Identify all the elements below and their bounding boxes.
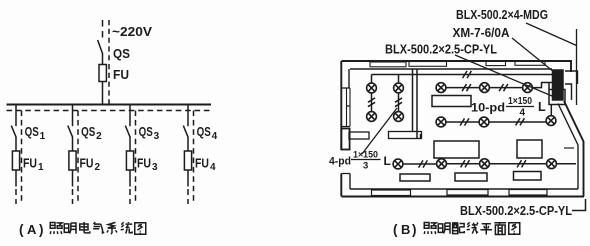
window W1 top wall — [370, 62, 406, 67]
lamp row2 no.1 — [436, 117, 446, 127]
wire incoming feed neutral (dashed) — [108, 20, 110, 104]
switch QS1 blade — [11, 126, 16, 138]
wire branch4 neutral (dashed) — [193, 111, 195, 205]
svg-text:QS: QS — [197, 124, 211, 139]
lamp row3 no.2 — [437, 159, 447, 169]
hatch row3 seg2 — [461, 160, 470, 167]
lamp room1 bottom-right — [394, 112, 404, 122]
wire row1 seg2 — [490, 87, 522, 89]
lamp row3 no.4 — [547, 159, 557, 169]
svg-text:B: B — [401, 222, 410, 237]
wire branch1 lower dashed stub — [15, 189, 17, 204]
wire branch3 neutral (dashed) — [135, 111, 137, 205]
wall top inner — [350, 68, 552, 70]
svg-text:A: A — [27, 222, 37, 237]
svg-text:QS: QS — [139, 124, 153, 139]
svg-text:10-pd: 10-pd — [471, 103, 505, 115]
wire room1 col1 vertical — [371, 93, 373, 111]
wire branch1 neutral (dashed) — [21, 111, 23, 205]
lamp row1 no.2 — [480, 83, 490, 93]
window W6 bottom wall — [447, 190, 488, 196]
fluorescent fixture box3 — [517, 140, 542, 158]
svg-text:4-pd: 4-pd — [329, 156, 351, 168]
lamp row3 no.3 — [480, 159, 490, 169]
leader line from 4-pd label into room — [362, 108, 397, 154]
wall partition interior (double line) — [413, 69, 421, 139]
caption (B) 照明配线平面图 — [393, 222, 520, 237]
wire room1 col2 vertical — [398, 93, 400, 111]
switch QS3 blade — [125, 126, 130, 138]
busbar neutral (dashed) — [7, 110, 212, 112]
wire row3 seg1 — [403, 163, 436, 165]
leader bracket of bottom cable label — [572, 199, 586, 211]
lamp row1 no.3 — [523, 83, 533, 93]
svg-text:1: 1 — [40, 131, 46, 142]
fluorescent fixture bar2 — [455, 173, 487, 181]
wire row2 seg1 — [446, 121, 478, 123]
wall left window ticks — [341, 88, 350, 174]
svg-text:2: 2 — [95, 162, 101, 173]
svg-text:QS: QS — [81, 124, 95, 139]
hatch row2 seg2 — [516, 118, 525, 125]
fraction bar (10-pd) — [506, 106, 534, 108]
svg-text:FU: FU — [113, 67, 129, 82]
fuse FU (feed) — [99, 65, 106, 82]
svg-text:): ) — [39, 222, 44, 237]
svg-text:FU: FU — [195, 156, 209, 171]
svg-text:BLX-500.2×4-MDG: BLX-500.2×4-MDG — [456, 7, 548, 22]
wire QS2 to FU2 — [72, 137, 74, 151]
wire row3 to right wall — [557, 163, 576, 165]
wire row2 seg2 — [489, 121, 545, 123]
window W7 bottom wall — [509, 190, 547, 196]
svg-text:L: L — [384, 154, 391, 168]
hatch on room1 col2 wire — [395, 98, 402, 107]
svg-text:~220V: ~220V — [112, 24, 152, 39]
svg-text:FU: FU — [137, 156, 151, 171]
wire drop to lamp room1 col1 — [371, 75, 373, 83]
window W4 top wall — [515, 61, 545, 66]
svg-text:1×150: 1×150 — [353, 150, 378, 161]
svg-text:4: 4 — [210, 162, 216, 173]
hatch row1 seg1 — [462, 84, 471, 91]
lamp row1 no.1 — [436, 83, 446, 93]
wall left outer — [340, 61, 342, 197]
wall right slanted outer — [564, 101, 584, 197]
svg-text:1: 1 — [38, 162, 44, 173]
svg-text:): ) — [412, 222, 417, 237]
wire branch3 lower dashed stub — [129, 189, 131, 204]
svg-text:1×150: 1×150 — [508, 96, 532, 107]
svg-text:(: ( — [393, 222, 398, 237]
wall bottom outer — [342, 196, 585, 198]
wire QS1 to FU1 — [15, 137, 17, 151]
wire QS3 to FU3 — [129, 137, 131, 151]
svg-text:3: 3 — [154, 131, 160, 142]
distribution box XM outline — [549, 90, 565, 105]
fluorescent fixture bar1 — [400, 174, 430, 181]
svg-text:3: 3 — [363, 161, 368, 172]
wall top-right corner step — [565, 71, 578, 100]
wire branch2 lower dashed stub — [72, 189, 74, 204]
branch circuit 4: wire tap — [187, 105, 189, 127]
wall bottom inner — [350, 188, 578, 190]
busbar phase (solid) — [7, 104, 212, 106]
fuse FU4 — [184, 151, 191, 170]
wire row3 seg3 — [490, 163, 546, 165]
wire row1 seg1 — [446, 87, 479, 89]
branch circuit 1: wire tap — [15, 105, 17, 127]
lamp row2 no.3 — [546, 116, 556, 126]
lamp row3 no.1 — [393, 159, 403, 169]
hatch row3 seg1 — [419, 160, 428, 167]
wire below FU2 — [72, 170, 74, 187]
switch QS blade (feed) — [98, 40, 103, 54]
svg-text:4: 4 — [212, 131, 218, 142]
fuse FU3 — [126, 151, 133, 170]
leader line from BLX-500.2x4-MDG label — [526, 23, 577, 105]
hatch row3 seg3 — [517, 160, 526, 167]
branch circuit 3: wire tap — [129, 105, 131, 127]
wire below FU1 — [15, 170, 17, 187]
wire box down to row2 lamp — [550, 105, 552, 116]
hatch 2-wire mark on main feed — [463, 71, 472, 78]
svg-text:(: ( — [19, 222, 24, 237]
svg-text:BLX-500.2×2.5-CP-YL: BLX-500.2×2.5-CP-YL — [385, 42, 497, 57]
svg-text:BLX-500.2×2.5-CP-YL: BLX-500.2×2.5-CP-YL — [460, 203, 572, 218]
wire below FU4 — [187, 170, 189, 187]
wall right inner corner stub — [564, 147, 574, 149]
svg-text:QS: QS — [113, 46, 130, 61]
switch QS2 blade — [68, 126, 73, 138]
wire QS4 to FU4 — [187, 137, 189, 151]
fuse FU1 — [12, 151, 19, 170]
wire below FU3 — [129, 170, 131, 187]
wire drop to lamp room1 col2 — [398, 75, 400, 83]
svg-text:QS: QS — [25, 124, 39, 139]
svg-text:4: 4 — [520, 108, 526, 119]
branch circuit 2: wire tap — [72, 105, 74, 127]
wall pier corridor — [389, 132, 422, 139]
fluorescent fixture box2 — [434, 141, 479, 158]
wire incoming feed phase (solid) upper segment — [102, 20, 104, 40]
wall pier left room bottom — [349, 132, 369, 139]
wire branch4 lower dashed stub — [187, 189, 189, 204]
hatch on room1 col1 wire — [368, 98, 375, 107]
lamp room1 top-left — [367, 83, 377, 93]
wall top outer — [342, 61, 572, 72]
leader line from XM-7-6/0A label to box — [512, 38, 554, 72]
wire row1 to box (stepped) — [533, 83, 552, 90]
hatch row2 seg1 — [460, 118, 469, 125]
switch QS4 blade — [183, 126, 188, 138]
lamp room1 top-right — [394, 83, 404, 93]
svg-text:FU: FU — [23, 156, 37, 171]
lamp room1 bottom-left — [367, 112, 377, 122]
fuse FU2 — [69, 151, 76, 170]
wire branch2 neutral (dashed) — [77, 111, 79, 205]
window W5 bottom wall — [372, 190, 411, 196]
window W2 top wall — [409, 62, 447, 67]
hatch row1 seg2 — [499, 84, 508, 91]
svg-text:FU: FU — [80, 156, 94, 171]
fraction bar (4-pd) — [351, 159, 381, 161]
fluorescent fixture bar3 — [514, 172, 542, 181]
distribution box XM (filled) — [553, 70, 564, 100]
svg-text:3: 3 — [152, 162, 158, 173]
fluorescent fixture box1 — [432, 96, 471, 107]
wall left pier (filled) — [341, 129, 349, 150]
leader line from BLX-500.2x2.5-CP-YL label to box — [455, 55, 552, 96]
wall right slanted inner — [558, 104, 578, 190]
svg-text:L: L — [538, 100, 546, 114]
svg-text:2: 2 — [96, 131, 102, 142]
wire feed between QS and FU — [102, 54, 104, 65]
wire feed below FU to busbar — [102, 82, 104, 106]
wall left inner — [349, 69, 350, 189]
lamp row2 no.2 — [479, 117, 489, 127]
wire main feed along top wall — [372, 74, 553, 76]
caption (A) 照明电气系统图 — [19, 222, 146, 237]
svg-text:XM-7-6/0A: XM-7-6/0A — [453, 25, 511, 40]
window W3 top wall — [486, 61, 506, 66]
wire row3 seg2 — [447, 163, 479, 165]
